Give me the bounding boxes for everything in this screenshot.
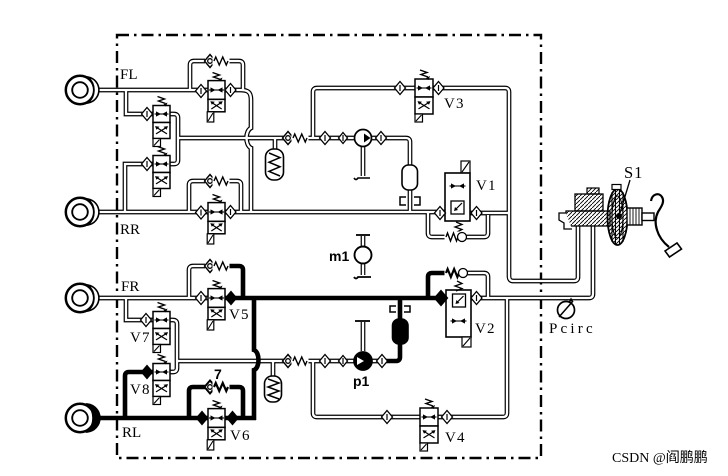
wire RL pipe bold	[94, 416, 256, 421]
pump p1 shaft bar	[355, 320, 370, 322]
FL wheel brake	[66, 76, 99, 104]
wire V2 output to master cylinder port2	[471, 226, 593, 298]
circuit1 low pressure accumulator	[266, 149, 284, 180]
V1 right port	[471, 207, 482, 220]
master cylinder reservoir	[575, 188, 603, 211]
wire FR pipe	[96, 296, 208, 301]
inlet valve V5	[207, 281, 225, 331]
RR outlet valve	[153, 147, 170, 197]
FL bypass check valve	[205, 55, 216, 68]
motor m1	[354, 235, 372, 279]
FL inlet valve	[207, 73, 225, 123]
svg-text:FL: FL	[120, 67, 138, 83]
circuit1 line port B	[339, 133, 348, 144]
wire V5 bypass left leg	[189, 266, 205, 298]
wire RR supply line to V1	[225, 210, 445, 215]
outlet valve V7	[153, 303, 170, 353]
circuit2 line port B	[339, 356, 348, 367]
wire V5 bypass right leg bold	[227, 266, 243, 298]
circuit1 pump shaft foot	[354, 178, 370, 180]
wire V8 supply link bold	[125, 372, 153, 418]
V2 right port	[471, 292, 482, 305]
V3 right port	[433, 82, 444, 95]
booster pushrod threaded section	[627, 208, 654, 225]
wire pump p1 shaft	[361, 322, 366, 351]
svg-text:7: 7	[214, 366, 222, 382]
wire circuit2 accumulator stub	[271, 361, 276, 376]
RR bypass check valve	[205, 175, 216, 188]
RR inlet valve left port	[196, 206, 207, 219]
circuit1 return spring	[292, 133, 309, 144]
wire motor shafts	[361, 236, 366, 275]
circuit1 damper chamber	[402, 165, 418, 190]
V1 left port	[435, 207, 446, 220]
S1 label leader line	[620, 180, 630, 213]
FL outlet valve	[153, 97, 170, 147]
inlet valve V6	[207, 401, 225, 451]
V5 left port	[196, 292, 207, 305]
V2 left port filled	[435, 291, 448, 306]
circuit2 line port A	[320, 355, 331, 368]
V6 left port filled	[197, 412, 208, 425]
wire RR outlet branch	[125, 164, 153, 212]
pump p1	[354, 352, 372, 370]
svg-text:Pcirc: Pcirc	[549, 321, 596, 337]
circuit1 pump right port	[376, 132, 387, 145]
circuit1 pump	[355, 130, 372, 147]
V1 bypass check ball	[458, 233, 467, 242]
wire pump p1 output bold	[385, 296, 400, 361]
V2 bypass check ball	[459, 269, 468, 278]
wire FL pipe	[96, 88, 208, 93]
FL inlet valve left port	[196, 85, 207, 98]
pump p1 right port	[377, 355, 388, 368]
wire RR inlet bypass	[189, 181, 241, 212]
wire circuit2 return line	[177, 359, 386, 364]
svg-text:RL: RL	[122, 425, 141, 441]
circuit2 return check valve	[283, 355, 294, 368]
wire V1 right link	[470, 211, 509, 216]
wire RR pipe	[96, 210, 208, 215]
wire circuit1 accumulator stub	[273, 138, 278, 152]
FL bypass spring	[213, 56, 230, 67]
dash-dot border frame of hydraulic unit	[117, 35, 541, 458]
FR wheel brake	[66, 284, 99, 312]
svg-text:CSDN @阎鹏鹏: CSDN @阎鹏鹏	[612, 450, 708, 466]
circuit2 return spring	[292, 356, 309, 367]
changeover valve V1	[445, 161, 470, 232]
outlet valve V8	[153, 355, 170, 405]
V4 right port	[442, 411, 453, 424]
V5 bypass spring	[213, 261, 230, 272]
svg-text:V7: V7	[130, 330, 151, 346]
wire V2 bypass right leg	[467, 273, 488, 297]
circuit2 orifice	[390, 306, 410, 312]
wire V4 feed line	[313, 361, 420, 417]
svg-text:V5: V5	[229, 307, 250, 323]
RR outlet valve port	[142, 158, 153, 171]
wire FL outlet branch	[126, 90, 153, 114]
RL wheel brake	[66, 404, 100, 432]
V6 bypass check valve	[205, 381, 216, 394]
svg-text:FR: FR	[121, 279, 139, 295]
wire FR-RL supply drop bold with hop	[254, 296, 259, 420]
wire RR outlet return link	[170, 138, 178, 164]
V4 left port	[382, 411, 393, 424]
circuit2 damper chamber filled	[393, 319, 409, 344]
wire V3 feed line	[313, 88, 415, 138]
FL outlet valve port	[142, 108, 153, 121]
V8 port filled	[142, 366, 153, 379]
svg-text:V6: V6	[230, 428, 251, 444]
circuit2 low pressure accumulator	[265, 376, 282, 402]
wire FL inlet bypass	[190, 61, 243, 90]
svg-text:V3: V3	[444, 96, 465, 112]
svg-text:S1: S1	[624, 163, 643, 182]
RR bypass spring	[213, 176, 230, 187]
svg-text:V2: V2	[475, 321, 496, 337]
V1 bypass spring	[445, 232, 460, 243]
wire FL supply drop with crossover hop	[225, 90, 251, 212]
svg-text:p1: p1	[353, 373, 370, 389]
wire V4 output up to V2 node	[438, 299, 507, 417]
svg-text:V1: V1	[476, 178, 497, 194]
changeover valve V2	[446, 281, 471, 347]
RR inlet valve	[207, 195, 225, 245]
hydraulic pipes (inner white core)	[96, 61, 593, 417]
V6 right port filled	[227, 412, 238, 425]
wire V2 bypass left leg bold	[428, 273, 446, 300]
RR wheel brake	[66, 198, 99, 226]
master cylinder body	[559, 211, 610, 229]
FL inlet valve right port	[225, 84, 236, 97]
V5 bypass check valve	[205, 260, 216, 273]
wire V7 return link	[170, 320, 177, 361]
wire circuit1 return line	[178, 138, 410, 212]
V5 right port filled	[226, 292, 237, 305]
wire V3 output to master cylinder port1	[433, 88, 578, 281]
svg-text:RR: RR	[120, 222, 140, 238]
wire FR supply line bold	[225, 296, 446, 301]
circuit1 line port A	[320, 132, 331, 145]
RR inlet valve right port	[225, 206, 236, 219]
circuit1 return check valve	[283, 132, 294, 145]
V2 bypass spring	[445, 268, 461, 279]
circuit1 orifice	[400, 197, 420, 205]
brake pedal	[651, 194, 682, 257]
vacuum booster S1	[608, 185, 628, 246]
svg-text:V8: V8	[130, 382, 151, 398]
hydraulic pipes (outer walls)	[96, 61, 593, 417]
V7 port	[141, 314, 152, 327]
wire FR outlet branch to V7	[126, 298, 153, 320]
svg-text:m1: m1	[329, 248, 349, 264]
wire FL outlet return link	[170, 114, 178, 138]
wire pump1 shaft	[361, 147, 366, 176]
pressure gauge Pcirc	[558, 298, 575, 319]
wire V6 bypass bold	[189, 387, 243, 418]
svg-text:V4: V4	[445, 430, 466, 446]
wire V8 return link	[170, 361, 177, 372]
switching valve V4	[420, 399, 438, 451]
V6 bypass spring	[213, 382, 230, 393]
wire V1 bypass loop	[428, 212, 488, 237]
switching valve V3	[415, 70, 433, 122]
V3 left port	[395, 82, 406, 95]
